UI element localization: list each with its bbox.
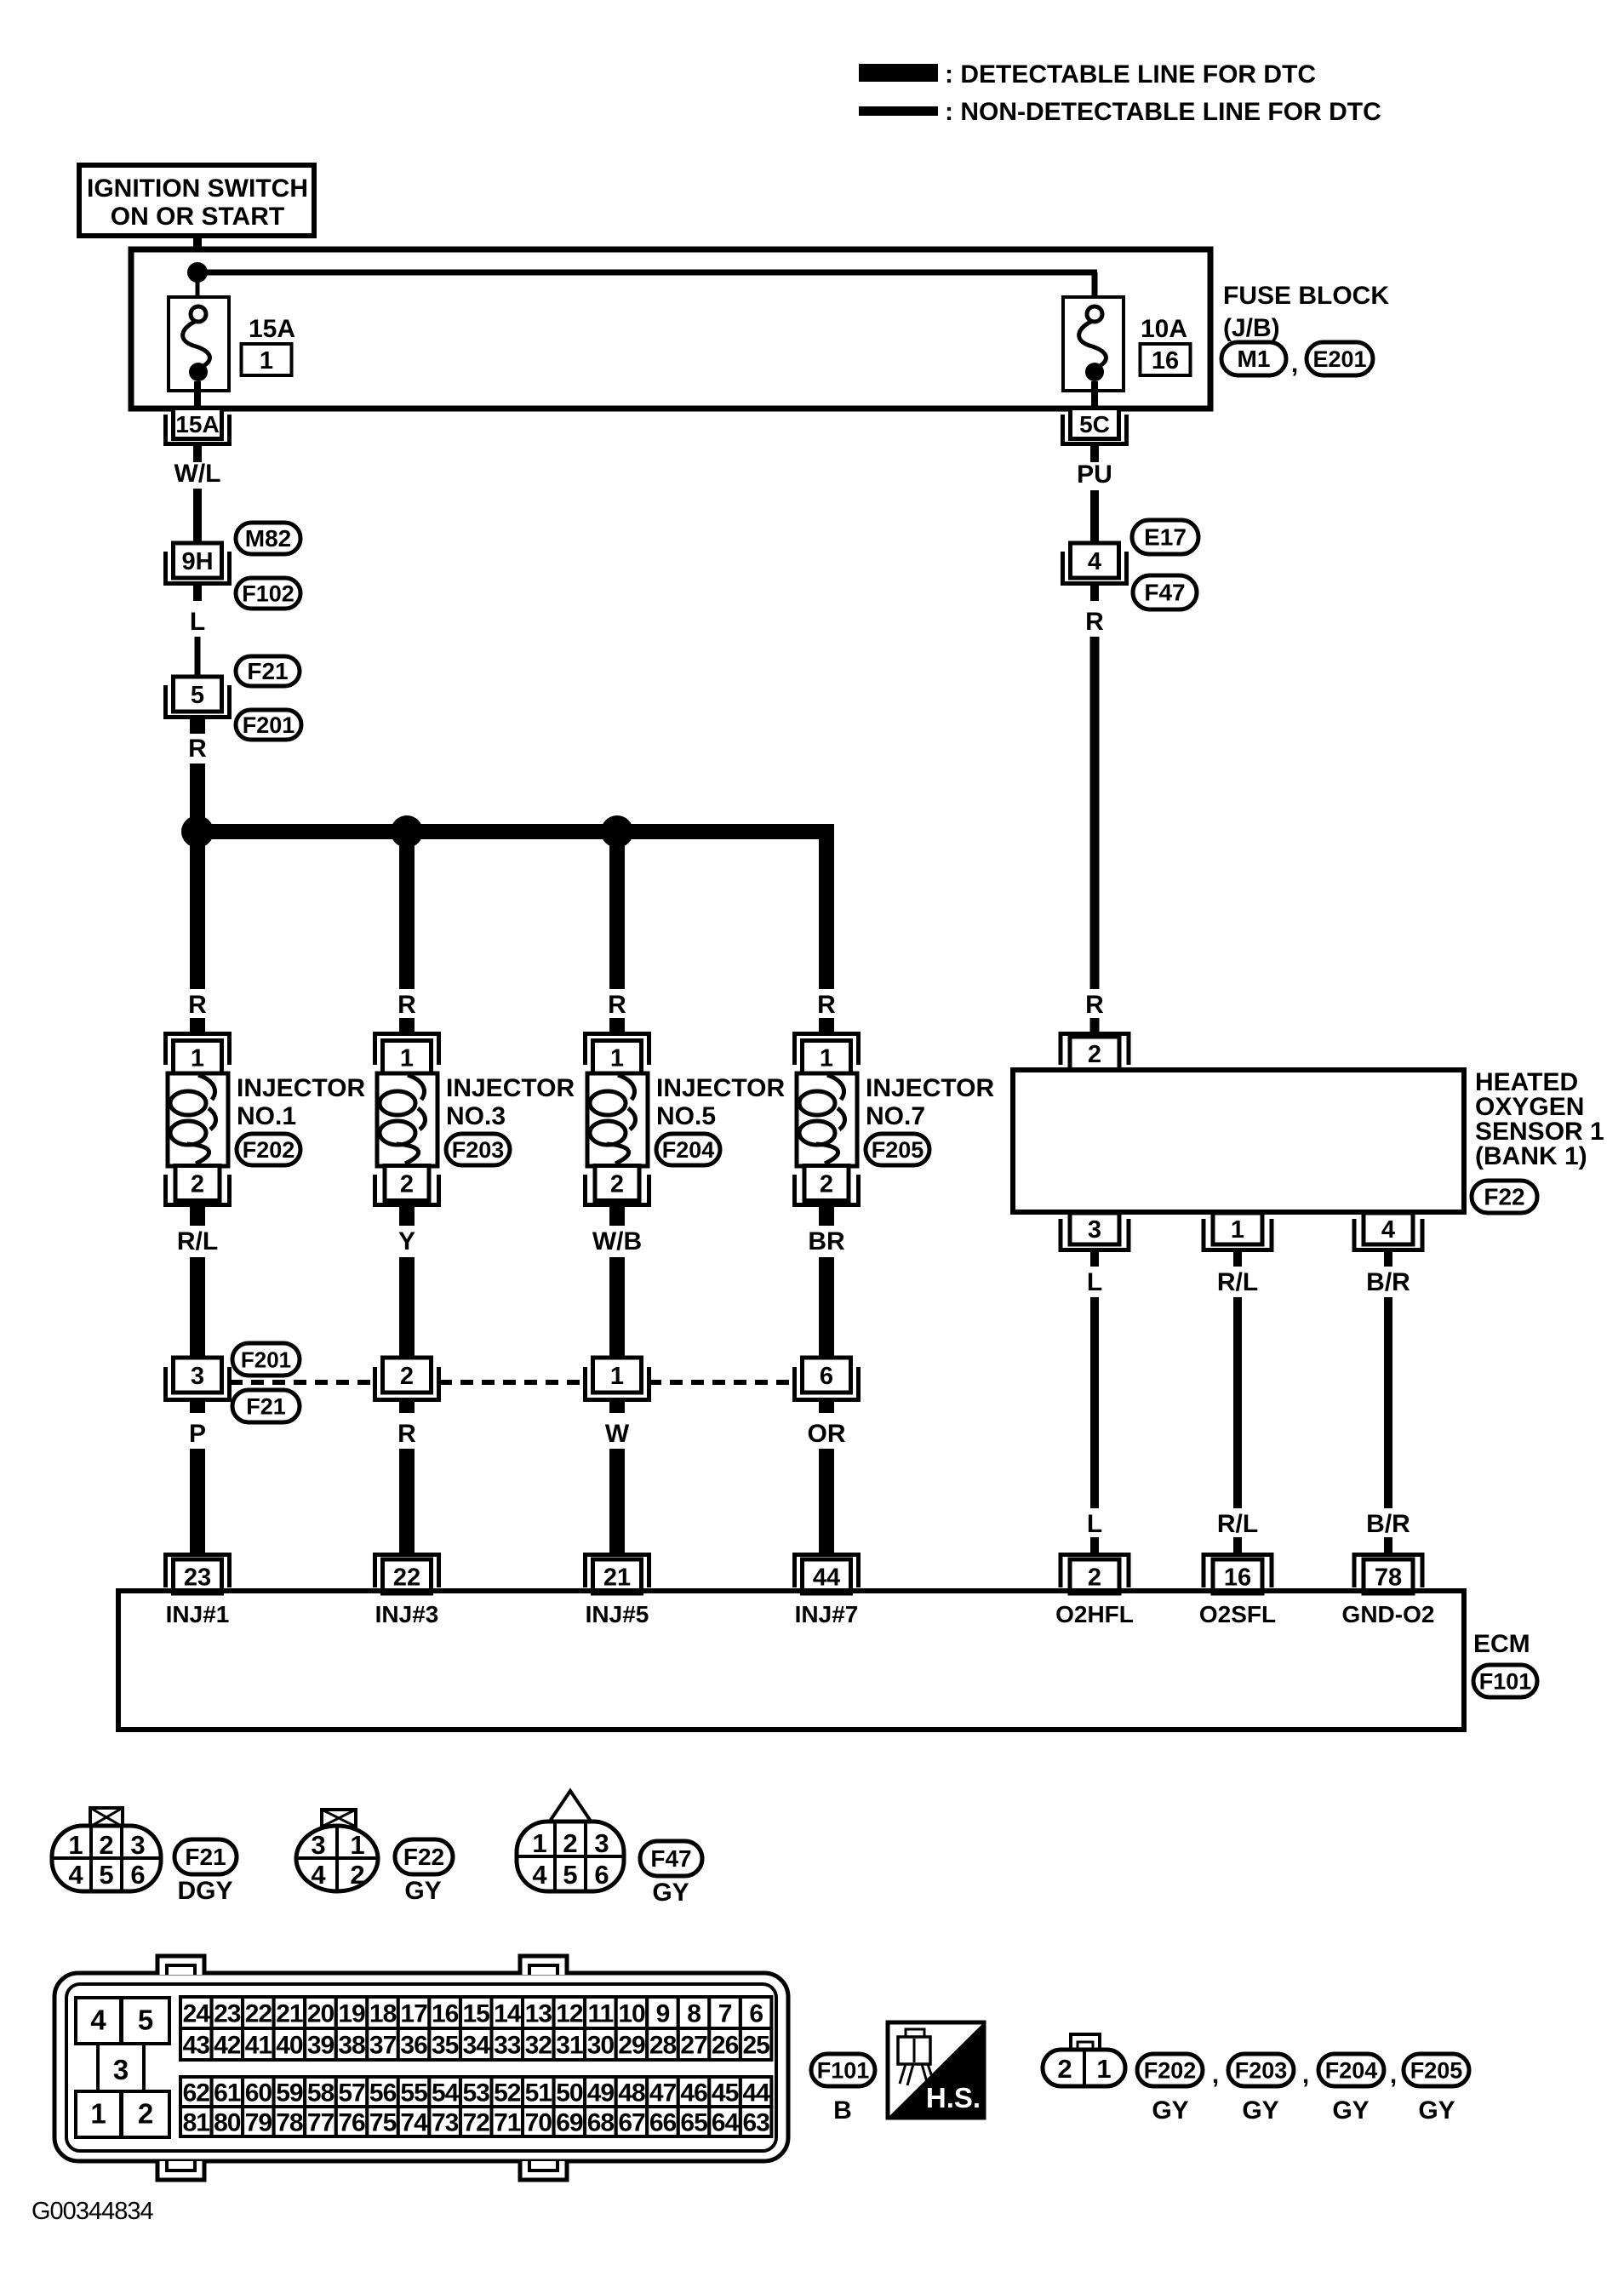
wire label Y: [398, 1227, 415, 1255]
svg-text:32: 32: [525, 2032, 552, 2060]
svg-text:R: R: [188, 735, 207, 763]
wire label R (heater supply): [1085, 608, 1104, 636]
wire stub above ECM pin 16: [1233, 1537, 1242, 1554]
connector pin 3 (F201/F21 pass-through): [166, 1358, 230, 1400]
HO2S pin 4: [1354, 1213, 1422, 1250]
svg-text:(J/B): (J/B): [1223, 314, 1280, 342]
H.S. (harness side) icon: [888, 2022, 984, 2118]
wire label PU: [1077, 460, 1112, 489]
wire stub below HO2S pin 4: [1384, 1252, 1392, 1267]
wire label R/L (lower): [1217, 1510, 1258, 1538]
connector 5 (F21/F201): [166, 677, 230, 718]
svg-text:19: 19: [338, 2000, 365, 2028]
wire label R above sensor: [1085, 991, 1104, 1019]
dashed connector line F201/F21 row: [230, 1380, 795, 1385]
svg-text:42: 42: [214, 2032, 241, 2060]
figure number: [31, 2198, 153, 2225]
svg-text:E201: E201: [1312, 346, 1366, 372]
injector NO.3 pin 1: [375, 1034, 439, 1074]
injector NO.5 pin 1: [586, 1034, 649, 1074]
wire label R (injector NO.3 branch): [397, 991, 416, 1019]
svg-text:71: 71: [494, 2109, 521, 2137]
svg-text:74: 74: [400, 2109, 428, 2137]
svg-text:R: R: [397, 1420, 416, 1448]
wire stub above injector NO.5 pin 1: [609, 1018, 625, 1033]
svg-text:39: 39: [307, 2032, 335, 2060]
svg-text:1: 1: [191, 1045, 204, 1072]
terminal 5C on fuse block: [1063, 409, 1127, 444]
svg-text:12: 12: [556, 2000, 583, 2028]
svg-text:GY: GY: [652, 1879, 689, 1907]
svg-text:O2SFL: O2SFL: [1199, 1601, 1276, 1627]
svg-text:F22: F22: [1484, 1184, 1524, 1210]
svg-text:INJ#3: INJ#3: [375, 1601, 439, 1627]
connector face F22 (4-cavity): [296, 1810, 378, 1891]
wire label R (injector NO.7 branch): [817, 991, 836, 1019]
svg-text:22: 22: [393, 1564, 420, 1592]
ECM connector pin row 62-44: [180, 2077, 771, 2108]
wire label W/L: [174, 460, 221, 488]
svg-text:L: L: [1087, 1510, 1102, 1538]
svg-text:41: 41: [245, 2032, 272, 2060]
junction node in fuse block: [187, 262, 208, 283]
wire Y to connector: [399, 1257, 415, 1359]
ECM connector pin row 24-6: [180, 1997, 771, 2028]
svg-text:81: 81: [183, 2109, 210, 2137]
wire L: [195, 637, 201, 681]
wire label L (upper): [1087, 1268, 1102, 1296]
ECM terminal label INJ#7: [795, 1601, 859, 1627]
connector F204: [656, 1134, 720, 1165]
svg-text:6: 6: [749, 2000, 763, 2028]
ECM terminal label O2SFL: [1199, 1601, 1276, 1627]
svg-text:3: 3: [113, 2054, 129, 2085]
svg-text:72: 72: [463, 2109, 490, 2137]
connector F203 label: [1228, 2054, 1294, 2125]
svg-text:43: 43: [183, 2032, 210, 2060]
svg-text:F102: F102: [242, 581, 294, 607]
svg-text:4: 4: [90, 2005, 106, 2036]
wire label R (injector NO.1 branch): [188, 991, 207, 1019]
ECM connector pin 3: [98, 2044, 144, 2090]
wire junction to fuse 16 (thin): [195, 270, 1098, 307]
junction node injector no.5 branch: [601, 815, 633, 848]
wire R branch to injector NO.3: [399, 839, 415, 989]
connector 9H (M82/F102): [166, 543, 230, 584]
connector 4 (E17/F47): [1063, 543, 1127, 584]
connector face F21 (6-cavity): [52, 1808, 161, 1891]
HO2S pin 1: [1204, 1213, 1272, 1250]
svg-text:5C: 5C: [1079, 411, 1110, 438]
svg-text:L: L: [190, 608, 205, 636]
svg-text:54: 54: [432, 2079, 460, 2108]
wire R/L to ECM: [1233, 1297, 1242, 1508]
ECM terminal label INJ#3: [375, 1601, 439, 1627]
connector M82: [236, 523, 300, 554]
svg-text:F101: F101: [1479, 1669, 1532, 1695]
svg-text:79: 79: [245, 2109, 272, 2137]
injector NO.7 pin 1: [795, 1034, 859, 1074]
wire OR to ECM: [819, 1402, 834, 1554]
wire label B/R (upper): [1366, 1268, 1410, 1296]
svg-text:GY: GY: [1152, 2096, 1188, 2125]
connector face F47 (6-cavity): [517, 1791, 624, 1891]
svg-text:R/L: R/L: [177, 1227, 218, 1255]
wire stub below 9H: [193, 586, 202, 601]
fuse 16 number box 16: [1141, 344, 1191, 375]
svg-text:F202: F202: [1144, 2058, 1197, 2084]
svg-text:9: 9: [656, 2000, 670, 2028]
svg-text:1: 1: [610, 1363, 624, 1390]
svg-text:48: 48: [618, 2079, 645, 2108]
connector F205: [866, 1134, 929, 1165]
injector NO.1 label: [237, 1074, 365, 1130]
svg-text:INJ#1: INJ#1: [166, 1601, 230, 1627]
svg-text:3: 3: [191, 1363, 204, 1390]
svg-text:70: 70: [525, 2109, 552, 2137]
svg-text:W: W: [605, 1420, 630, 1448]
connector F101 (ECM): [811, 2054, 875, 2086]
wire stub below injector NO.7 pin 2: [819, 1207, 834, 1226]
svg-text:: NON-DETECTABLE LINE FOR DTC: : NON-DETECTABLE LINE FOR DTC: [945, 98, 1381, 126]
svg-text:: DETECTABLE LINE FOR DTC: : DETECTABLE LINE FOR DTC: [945, 60, 1316, 89]
svg-text:H.S.: H.S.: [926, 2082, 981, 2113]
svg-text:37: 37: [369, 2032, 397, 2060]
heated oxygen sensor label: [1475, 1068, 1604, 1170]
svg-text:P: P: [189, 1420, 206, 1448]
injector NO.3 pin 2: [375, 1166, 439, 1205]
svg-text:BR: BR: [808, 1227, 845, 1255]
svg-text:Y: Y: [398, 1227, 415, 1255]
wire stub below HO2S pin 3: [1090, 1252, 1099, 1267]
ECM connector top tab 2: [520, 1956, 567, 1975]
svg-text:ON OR START: ON OR START: [111, 203, 284, 231]
svg-text:64: 64: [712, 2109, 740, 2137]
svg-text:NO.5: NO.5: [656, 1102, 716, 1130]
svg-text:2: 2: [610, 1171, 624, 1198]
connector F21 (pass-through row): [232, 1390, 300, 1422]
svg-text:16: 16: [432, 2000, 459, 2028]
svg-text:47: 47: [649, 2079, 677, 2108]
svg-text:44: 44: [813, 1564, 840, 1592]
svg-text:16: 16: [1152, 347, 1179, 375]
connector pin 6 (F201/F21 pass-through): [795, 1358, 859, 1400]
wire R branch to injector NO.5: [609, 839, 625, 989]
svg-text:R: R: [397, 991, 416, 1019]
wire R branch to injector NO.1: [190, 839, 205, 989]
svg-text:11: 11: [588, 2000, 614, 2028]
svg-text:23: 23: [184, 1564, 211, 1592]
wire label W: [605, 1420, 630, 1448]
ECM connector pin 4: [76, 1998, 121, 2044]
svg-text:63: 63: [743, 2109, 770, 2137]
injector NO.7 label: [866, 1074, 994, 1130]
injector NO.5 label: [656, 1074, 785, 1130]
svg-text:44: 44: [743, 2079, 771, 2108]
connector F22 face label: [395, 1839, 453, 1874]
svg-text:GY: GY: [1242, 2096, 1278, 2125]
injector NO.3 label: [446, 1074, 575, 1130]
ECM terminal label GND-O2: [1342, 1601, 1435, 1627]
wire stub below injector NO.5 pin 2: [609, 1207, 625, 1226]
svg-text:24: 24: [183, 2000, 211, 2028]
ECM pin 22 (INJ#3): [375, 1555, 439, 1594]
svg-text:F201: F201: [241, 1347, 291, 1373]
svg-text:2: 2: [99, 1830, 113, 1860]
svg-text:6: 6: [594, 1860, 609, 1890]
connector pin 1 (F201/F21 pass-through): [586, 1358, 649, 1400]
ECM terminal label O2HFL: [1055, 1601, 1134, 1627]
svg-text:F203: F203: [1235, 2058, 1288, 2084]
svg-text:,: ,: [1390, 2061, 1397, 2089]
svg-text:F22: F22: [403, 1844, 444, 1870]
svg-text:15: 15: [463, 2000, 490, 2028]
svg-text:78: 78: [1375, 1564, 1402, 1592]
wire ignition switch to fuse block: [193, 236, 202, 268]
fuse 1 rating 15A: [249, 315, 295, 343]
svg-text:1: 1: [532, 1828, 546, 1858]
svg-text:3: 3: [311, 1830, 325, 1860]
wire W/B to connector: [609, 1257, 625, 1359]
connector F204 label: [1318, 2054, 1384, 2125]
svg-text:,: ,: [1291, 350, 1298, 378]
ECM pin 21 (INJ#5): [586, 1555, 649, 1594]
wire label OR: [808, 1420, 846, 1448]
svg-text:49: 49: [587, 2079, 615, 2108]
fuse 16 rating 10A: [1141, 315, 1187, 343]
svg-text:67: 67: [618, 2109, 645, 2137]
svg-text:E17: E17: [1144, 524, 1187, 551]
svg-text:R/L: R/L: [1217, 1268, 1258, 1296]
connector F201: [236, 710, 301, 740]
svg-text:10: 10: [618, 2000, 645, 2028]
svg-text:10A: 10A: [1141, 315, 1187, 343]
svg-text:25: 25: [743, 2032, 770, 2060]
svg-text:34: 34: [463, 2032, 491, 2060]
junction node injector no.1 branch: [181, 815, 214, 848]
svg-text:F47: F47: [1144, 580, 1185, 606]
connector F202 label: [1137, 2054, 1203, 2125]
ECM pin 16 (O2SFL): [1204, 1555, 1272, 1594]
terminal 15A on fuse block: [166, 409, 230, 444]
svg-text:53: 53: [463, 2079, 490, 2108]
svg-text:62: 62: [183, 2079, 210, 2108]
svg-text:1: 1: [350, 1830, 364, 1860]
wire stub above injector NO.3 pin 1: [399, 1018, 415, 1033]
svg-text:1: 1: [90, 2098, 106, 2130]
svg-text:M82: M82: [245, 525, 291, 552]
svg-text:1: 1: [260, 347, 273, 375]
svg-text:OR: OR: [808, 1420, 846, 1448]
wire stub above ECM pin 78: [1384, 1537, 1392, 1554]
svg-text:61: 61: [214, 2079, 241, 2108]
svg-text:73: 73: [432, 2109, 459, 2137]
svg-text:F21: F21: [247, 658, 288, 684]
svg-text:NO.3: NO.3: [446, 1102, 506, 1130]
svg-text:15A: 15A: [175, 411, 219, 438]
wire W to ECM: [609, 1402, 625, 1554]
svg-text:R/L: R/L: [1217, 1510, 1258, 1538]
svg-text:(BANK 1): (BANK 1): [1475, 1142, 1587, 1170]
svg-text:,: ,: [1212, 2061, 1219, 2089]
svg-text:35: 35: [432, 2032, 459, 2060]
svg-text:75: 75: [369, 2109, 397, 2137]
svg-text:GND-O2: GND-O2: [1342, 1601, 1435, 1627]
ECM connector pin row 81-63: [180, 2107, 771, 2137]
wire label BR: [808, 1227, 845, 1255]
svg-text:F201: F201: [243, 712, 295, 738]
svg-text:2: 2: [1057, 2054, 1072, 2084]
supply bus (thick detectable line): [190, 824, 834, 989]
ECM pin 23 (INJ#1): [166, 1555, 230, 1594]
connector F202: [237, 1134, 300, 1165]
svg-text:2: 2: [820, 1171, 833, 1198]
wire BR to connector: [819, 1257, 834, 1359]
svg-text:65: 65: [680, 2109, 707, 2137]
svg-text:INJ#7: INJ#7: [795, 1601, 859, 1627]
ECM pin 2 (O2HFL): [1061, 1555, 1129, 1594]
svg-text:L: L: [1087, 1268, 1102, 1296]
svg-text:R: R: [608, 991, 626, 1019]
fuse 1 (15A): [169, 297, 229, 391]
wire label B/R (lower): [1366, 1510, 1410, 1538]
wire stub below injector NO.3 pin 2: [399, 1207, 415, 1226]
svg-text:33: 33: [494, 2032, 521, 2060]
svg-text:46: 46: [680, 2079, 707, 2108]
svg-text:69: 69: [556, 2109, 583, 2137]
wire R to bus: [190, 764, 205, 832]
svg-text:3: 3: [1088, 1216, 1101, 1244]
svg-text:2: 2: [138, 2098, 153, 2130]
svg-text:2: 2: [563, 1828, 577, 1858]
wire stub below connector 5: [190, 719, 205, 734]
heated oxygen sensor 1 (bank 1) box: [1013, 1070, 1464, 1212]
F101 color B: [833, 2096, 852, 2125]
svg-text:DGY: DGY: [177, 1877, 232, 1905]
svg-text:INJECTOR: INJECTOR: [866, 1074, 994, 1102]
wire B/R to ECM: [1384, 1297, 1392, 1508]
ECM connector pin 2: [122, 2091, 169, 2137]
svg-text:1: 1: [610, 1045, 624, 1072]
wire fuse 16 to terminal 5C: [1091, 381, 1098, 410]
svg-text:60: 60: [245, 2079, 272, 2108]
ECM connector housing (F101): [54, 1973, 788, 2161]
svg-text:F204: F204: [662, 1137, 715, 1163]
svg-text:59: 59: [276, 2079, 303, 2108]
svg-text:1: 1: [68, 1830, 83, 1860]
ECM connector top tab 1: [157, 1956, 204, 1975]
svg-text:20: 20: [307, 2000, 335, 2028]
connector F21: [236, 656, 300, 686]
wire label R: [188, 735, 207, 763]
svg-text:INJECTOR: INJECTOR: [237, 1074, 365, 1102]
ECM terminal label INJ#1: [166, 1601, 230, 1627]
wire R/L to connector: [190, 1257, 205, 1359]
ECM connector pin 5: [122, 1998, 169, 2044]
fuse block (J/B) outline: [131, 249, 1210, 409]
svg-text:G00344834: G00344834: [31, 2198, 153, 2225]
connector F201 (pass-through row): [232, 1343, 300, 1375]
svg-text:B: B: [833, 2096, 852, 2125]
wire W/L: [193, 489, 202, 545]
svg-text:INJECTOR: INJECTOR: [446, 1074, 575, 1102]
svg-text:ECM: ECM: [1473, 1630, 1530, 1658]
legend: non-detectable line for DTC: [859, 98, 1381, 126]
svg-text:3: 3: [594, 1828, 609, 1858]
svg-text:29: 29: [618, 2032, 645, 2060]
svg-text:36: 36: [400, 2032, 427, 2060]
fuse 1 number box 1: [242, 344, 292, 375]
F22 color GY: [404, 1877, 441, 1905]
svg-text:F21: F21: [246, 1394, 286, 1420]
svg-text:IGNITION SWITCH: IGNITION SWITCH: [87, 174, 308, 203]
svg-text:4: 4: [1381, 1216, 1395, 1244]
svg-text:27: 27: [680, 2032, 707, 2060]
svg-text:F202: F202: [243, 1137, 295, 1163]
svg-text:52: 52: [494, 2079, 521, 2108]
svg-text:2: 2: [1088, 1564, 1101, 1592]
wire PU: [1090, 490, 1099, 545]
wire stub below connector 4: [1090, 586, 1099, 601]
svg-text:4: 4: [532, 1860, 547, 1890]
ECM connector bottom tab 1: [157, 2161, 204, 2180]
ECM pin 78 (GND-O2): [1354, 1555, 1422, 1594]
comma: [1212, 2061, 1219, 2089]
HO2S pin 3: [1061, 1213, 1129, 1250]
svg-text:14: 14: [494, 2000, 522, 2028]
legend: detectable line for DTC: [859, 60, 1316, 89]
svg-text:3: 3: [130, 1830, 145, 1860]
wire label R: [397, 1420, 416, 1448]
svg-text:FUSE BLOCK: FUSE BLOCK: [1223, 282, 1389, 310]
connector F47 face label: [640, 1841, 702, 1876]
connector pin 2 (F201/F21 pass-through): [375, 1358, 439, 1400]
svg-text:PU: PU: [1077, 460, 1112, 489]
svg-text:1: 1: [400, 1045, 414, 1072]
svg-text:2: 2: [350, 1860, 364, 1890]
svg-text:8: 8: [687, 2000, 700, 2028]
svg-text:21: 21: [603, 1564, 631, 1592]
svg-text:R: R: [1085, 608, 1104, 636]
svg-text:58: 58: [307, 2079, 335, 2108]
fuse block label: [1223, 282, 1389, 342]
svg-text:9H: 9H: [181, 548, 213, 575]
svg-text:F204: F204: [1325, 2058, 1378, 2084]
comma: [1390, 2061, 1397, 2089]
svg-text:5: 5: [191, 682, 204, 709]
svg-text:1: 1: [820, 1045, 833, 1072]
svg-text:R: R: [188, 991, 207, 1019]
svg-text:F203: F203: [452, 1137, 505, 1163]
svg-text:NO.1: NO.1: [237, 1102, 296, 1130]
svg-text:M1: M1: [1238, 346, 1271, 372]
svg-text:23: 23: [214, 2000, 241, 2028]
svg-text:38: 38: [338, 2032, 365, 2060]
svg-text:6: 6: [130, 1860, 145, 1890]
connector F47: [1133, 575, 1197, 609]
svg-text:56: 56: [369, 2079, 397, 2108]
svg-text:F205: F205: [1410, 2058, 1463, 2084]
comma: [1302, 2061, 1309, 2089]
svg-text:16: 16: [1224, 1564, 1251, 1592]
F21 color DGY: [177, 1877, 232, 1905]
svg-text:F205: F205: [872, 1137, 924, 1163]
connector F21 face label: [174, 1839, 237, 1874]
svg-text:W/L: W/L: [174, 460, 221, 488]
injector NO.1 pin 2: [166, 1166, 230, 1205]
ECM connector pin row 43-25: [180, 2028, 771, 2060]
ECM label: [1473, 1630, 1530, 1658]
